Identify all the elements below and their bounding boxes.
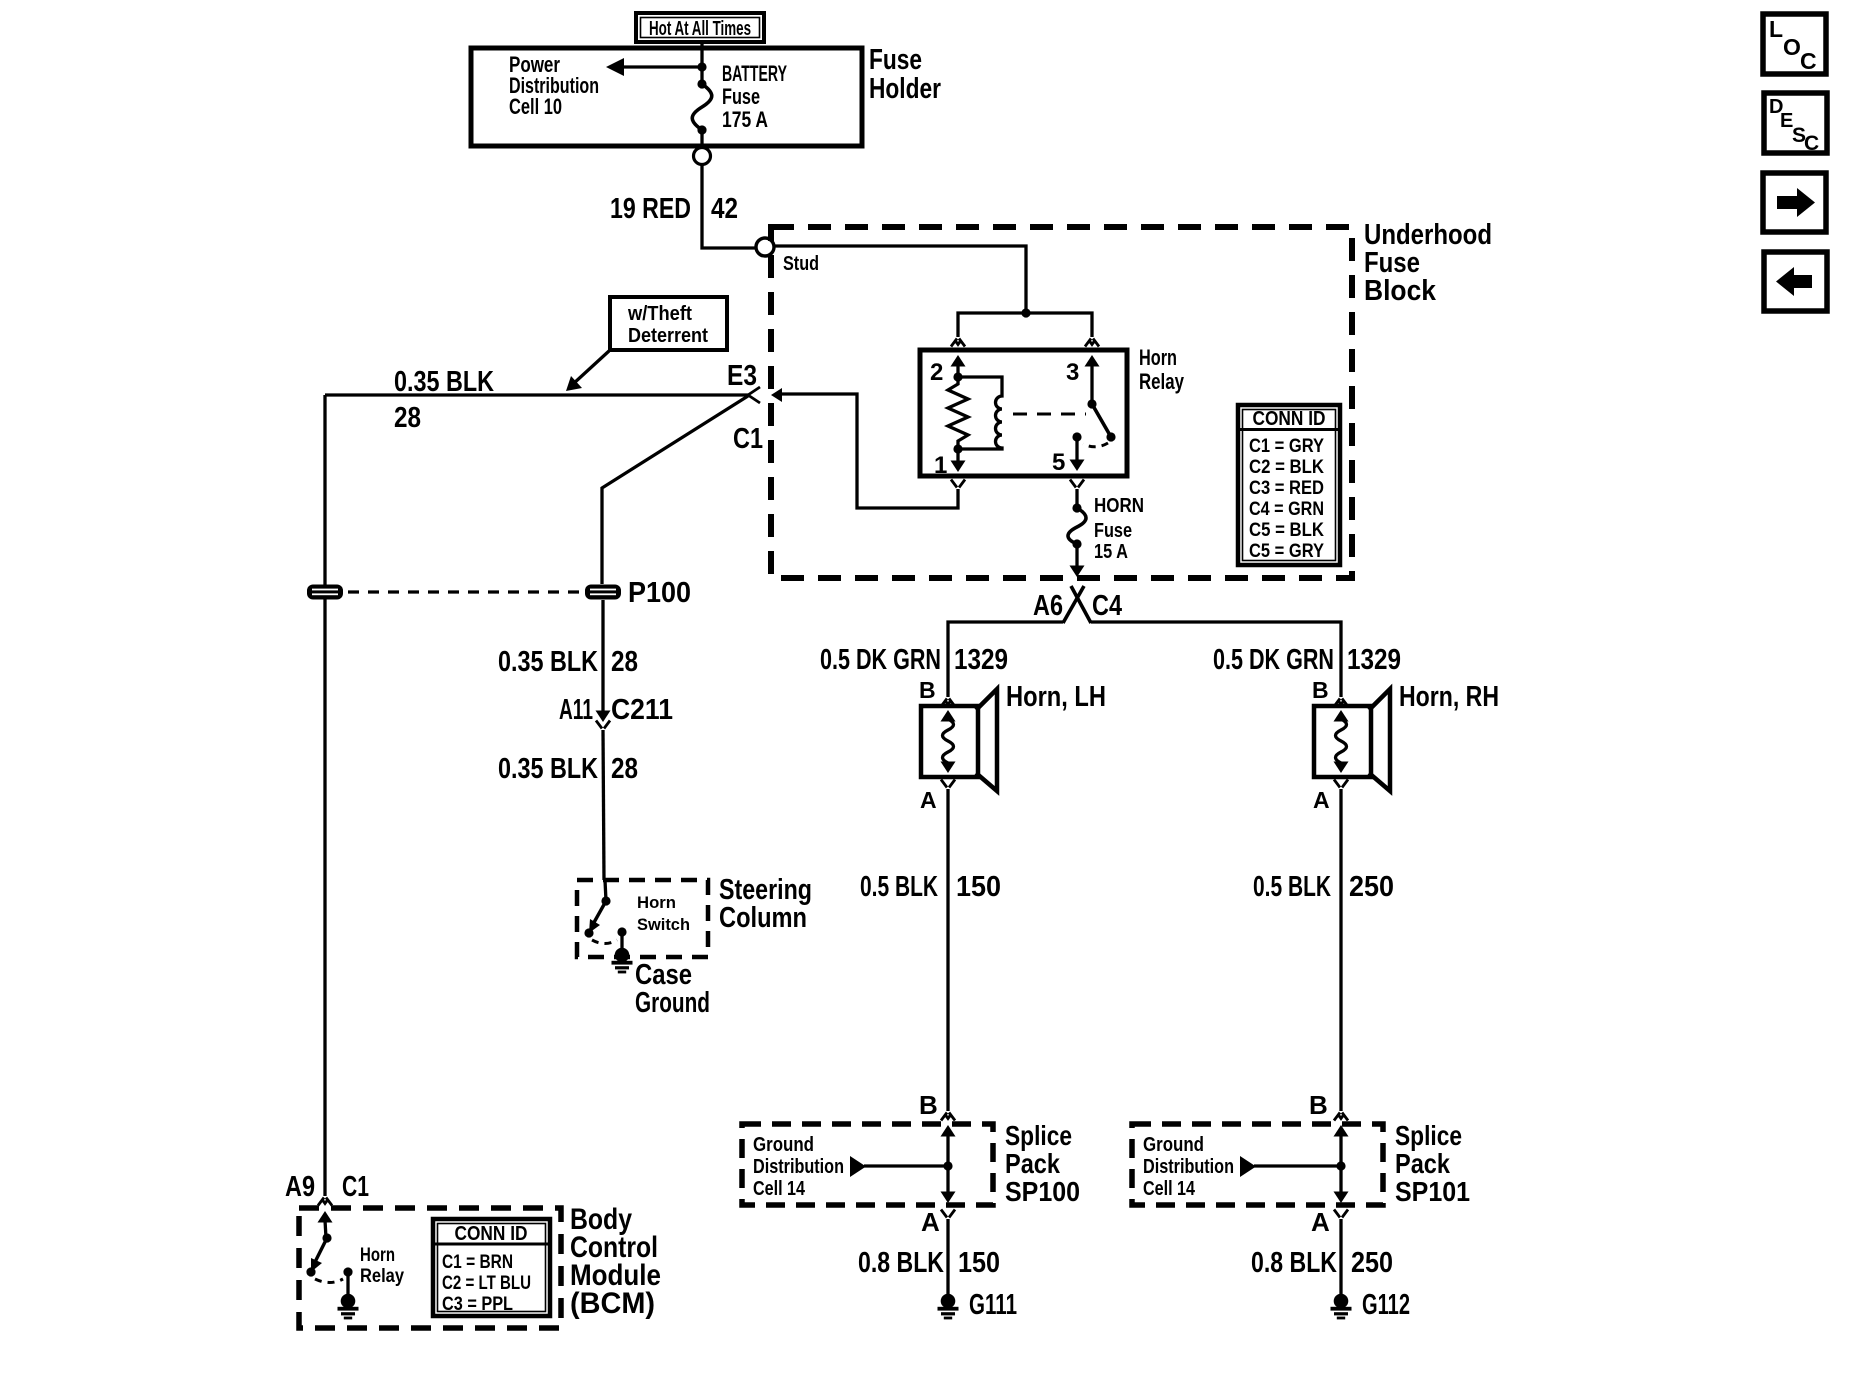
horn LH box [921,706,978,777]
svg-text:Relay: Relay [1139,369,1185,394]
relay coil [958,377,1002,449]
horn switch dashed arc [592,940,617,944]
label Steering Column [719,874,812,934]
svg-text:C3 = PPL: C3 = PPL [442,1294,513,1315]
connector A11 C211 [596,711,611,729]
horn switch contact dot [617,927,626,936]
wire horn fuse to block edge [1070,544,1085,577]
svg-text:2: 2 [930,359,943,386]
svg-text:w/Theft: w/Theft [627,303,692,325]
SP100 internal wire [941,1125,956,1203]
svg-text:Pack: Pack [1395,1148,1450,1179]
stud circle [756,238,774,256]
svg-text:O: O [1783,34,1801,60]
svg-text:C1: C1 [342,1171,369,1203]
battery fuse 175A symbol [692,79,712,134]
svg-text:28: 28 [394,402,421,434]
svg-text:Ground: Ground [635,987,710,1019]
ground G112 symbol [1331,1294,1352,1320]
label Horn Switch [637,893,690,934]
svg-text:150: 150 [956,871,1001,903]
relay pin 3 male arrow and stem [1085,355,1100,404]
case ground symbol [612,932,633,973]
relay coil-switch dashed link [1013,413,1086,416]
wire 0.35 BLK 28 horizontal [325,393,748,396]
svg-text:Cell 14: Cell 14 [753,1178,806,1200]
label Ground Distribution Cell 14 (SP100) [753,1134,844,1200]
svg-text:150: 150 [958,1247,1000,1279]
w/Theft arrow [566,351,609,391]
label Body Control Module (BCM) [570,1203,661,1320]
svg-text:Hot At All Times: Hot At All Times [649,18,751,40]
svg-text:Splice: Splice [1395,1120,1462,1151]
svg-text:B: B [1312,677,1329,703]
svg-text:0.5 BLK: 0.5 BLK [860,871,938,903]
svg-text:Ground: Ground [1143,1134,1204,1156]
label Hot At All Times [636,13,764,42]
svg-text:Deterrent: Deterrent [628,325,708,347]
svg-text:A: A [920,787,937,813]
svg-text:B: B [919,677,936,703]
female terminal below relay pin 1 [951,480,965,488]
svg-text:P100: P100 [628,577,691,609]
svg-text:1: 1 [934,452,947,479]
female terminal SP101 B [1334,1113,1348,1121]
female terminal horn LH A [941,780,955,788]
wire SP100 to ground [946,1219,949,1297]
horn LH speaker flare [976,689,997,791]
ground G111 symbol [938,1294,959,1320]
label Splice Pack SP101 [1395,1120,1470,1207]
BCM relay switch [306,1211,332,1277]
underhood fuse block dashed box [771,227,1352,578]
junction dot [697,62,706,71]
relay switch blade [1087,399,1115,441]
SP101 distribution arrow [1240,1156,1341,1177]
relay feed bus wire [958,313,1092,337]
svg-text:Block: Block [1364,275,1437,307]
svg-text:A6: A6 [1033,590,1063,622]
horn RH box [1314,706,1371,777]
splice pack SP101 dashed box [1132,1124,1383,1205]
svg-text:Column: Column [719,902,807,934]
label Ground Distribution Cell 14 (SP101) [1143,1134,1234,1200]
svg-text:C: C [1800,48,1817,74]
DESC button [1764,93,1827,155]
P100 grommet mid [585,585,621,600]
svg-text:A11: A11 [559,694,593,726]
wire pin1 to E3 connector [782,394,958,508]
steering column dashed box [577,880,708,957]
BCM switch dashed arc [315,1279,343,1283]
svg-text:C: C [1804,132,1819,155]
label Fuse Holder [869,44,941,105]
svg-text:B: B [919,1090,938,1120]
diagonal wire E3 to steering branch [602,396,748,584]
svg-text:CONN ID: CONN ID [1253,408,1326,430]
w/Theft Deterrent box [610,297,727,350]
label Underhood Fuse Block [1364,219,1492,307]
label Case Ground [635,959,710,1019]
wire stud to relay bus [774,246,1026,313]
female terminal SP100 B [941,1113,955,1121]
svg-text:C2 = LT BLU: C2 = LT BLU [442,1273,531,1294]
horn switch wire stub [605,880,606,901]
SP100 distribution arrow [850,1156,948,1177]
P100 dashed link [348,590,581,593]
svg-text:250: 250 [1351,1247,1393,1279]
svg-text:0.8 BLK: 0.8 BLK [858,1247,944,1279]
junction dot pin2 [953,372,962,381]
horn LH internal element [941,710,956,773]
wire hot feed [700,42,703,50]
svg-text:Horn: Horn [1139,345,1177,370]
svg-text:A: A [921,1207,940,1237]
female terminal BCM [318,1198,332,1206]
svg-text:Horn: Horn [360,1245,395,1266]
svg-text:C4: C4 [1092,590,1122,622]
wire pin5 to horn fuse [1075,489,1078,508]
horn RH speaker flare [1369,689,1390,791]
svg-text:CONN ID: CONN ID [455,1223,528,1245]
svg-text:0.8 BLK: 0.8 BLK [1251,1247,1337,1279]
svg-text:Distribution: Distribution [753,1156,844,1178]
label Horn Relay (BCM) [360,1245,404,1287]
power distribution arrow [606,58,702,76]
svg-text:0.5 DK GRN: 0.5 DK GRN [820,644,941,676]
female terminal below relay pin 5 [1070,480,1084,488]
E3 connector male arrow [771,388,782,402]
svg-text:0.5 BLK: 0.5 BLK [1253,871,1331,903]
svg-text:1329: 1329 [1347,644,1401,676]
svg-text:C1 = BRN: C1 = BRN [442,1252,513,1273]
wire horn RH to splice [1339,789,1342,1111]
label BATTERY Fuse 175 A [722,61,787,132]
mid vertical wire upper [601,600,604,716]
horn fuse 15A symbol [1068,503,1086,548]
female terminal horn RH B [1334,699,1348,707]
splice pack SP100 dashed box [742,1124,993,1205]
svg-text:Cell 10: Cell 10 [509,94,562,119]
wire battery feed [700,50,703,84]
svg-text:BATTERY: BATTERY [722,61,787,86]
wire 19 RED 42 [702,165,756,248]
relay pin 1 male arrow [951,449,966,472]
svg-text:Fuse: Fuse [1094,520,1132,542]
svg-text:15 A: 15 A [1094,541,1128,563]
svg-text:0.5 DK GRN: 0.5 DK GRN [1213,644,1334,676]
svg-text:250: 250 [1349,871,1394,903]
svg-text:A: A [1313,787,1330,813]
label Splice Pack SP100 [1005,1120,1080,1207]
fuse holder box [471,48,862,146]
junction dot bus [1021,308,1030,317]
svg-text:19 RED: 19 RED [610,193,691,225]
svg-text:(BCM): (BCM) [570,1287,655,1320]
svg-text:0.35 BLK: 0.35 BLK [498,753,598,785]
svg-text:Splice: Splice [1005,1120,1072,1151]
svg-text:0.35 BLK: 0.35 BLK [394,366,494,398]
horn RH internal element [1334,710,1349,773]
E3 connector female chevron [748,387,760,403]
wire SP101 to ground [1339,1219,1342,1297]
BCM dashed box [299,1208,561,1328]
svg-text:42: 42 [711,193,738,225]
svg-text:C211: C211 [611,694,673,726]
svg-text:A9: A9 [285,1171,315,1203]
svg-text:C1: C1 [733,423,763,455]
BCM switch contact and ground [338,1267,359,1319]
svg-text:B: B [1309,1090,1328,1120]
CONN ID table fuse block [1238,405,1340,565]
svg-text:Ground: Ground [753,1134,814,1156]
svg-text:C1 = GRY: C1 = GRY [1249,436,1324,457]
horn relay box [920,350,1127,476]
svg-text:SP100: SP100 [1005,1176,1080,1207]
svg-text:5: 5 [1052,449,1065,476]
wire horn LH to splice [946,789,949,1111]
label HORN Fuse 15 A [1094,495,1144,563]
svg-text:28: 28 [611,753,638,785]
wire fuse to terminal [700,130,703,147]
svg-text:175 A: 175 A [722,107,768,132]
svg-text:Horn, RH: Horn, RH [1399,681,1499,713]
svg-text:G112: G112 [1362,1289,1410,1321]
left vertical wire to BCM [323,395,326,1196]
female terminal SP100 A [941,1210,955,1218]
svg-text:A: A [1311,1207,1330,1237]
svg-text:3: 3 [1066,359,1079,386]
label Horn Relay [1139,345,1185,394]
svg-text:G111: G111 [969,1289,1017,1321]
relay resistor [948,377,968,449]
mid vertical wire lower [603,730,604,880]
P100 grommet left [307,585,343,600]
female terminal horn RH A [1334,780,1348,788]
svg-text:SP101: SP101 [1395,1176,1470,1207]
terminal circle [694,148,711,165]
svg-text:C4 = GRN: C4 = GRN [1249,499,1324,520]
svg-text:Fuse: Fuse [869,44,922,76]
svg-text:Fuse: Fuse [722,84,760,109]
junction dot pin1 [953,444,962,453]
relay pin 5 stem and male arrow [1070,432,1085,471]
svg-text:0.35 BLK: 0.35 BLK [498,646,598,678]
svg-text:C5 = GRY: C5 = GRY [1249,541,1324,562]
svg-text:Pack: Pack [1005,1148,1060,1179]
horn feed bus wire [948,622,1341,697]
svg-text:Cell 14: Cell 14 [1143,1178,1196,1200]
female terminal relay pin 2 [951,339,965,347]
svg-text:E3: E3 [727,360,757,392]
svg-text:Holder: Holder [869,73,941,105]
horn switch [584,896,610,937]
svg-text:C2 = BLK: C2 = BLK [1249,457,1324,478]
svg-text:28: 28 [611,646,638,678]
svg-text:1329: 1329 [954,644,1008,676]
svg-text:C5 = BLK: C5 = BLK [1249,520,1324,541]
svg-text:Horn: Horn [637,893,676,912]
svg-text:Switch: Switch [637,915,690,934]
relay pin 2 male arrow [951,355,966,377]
svg-text:Horn, LH: Horn, LH [1006,681,1106,713]
prev-page arrow button [1764,252,1827,311]
LOC button [1763,14,1826,74]
svg-text:Relay: Relay [360,1266,404,1287]
svg-text:HORN: HORN [1094,495,1144,517]
relay switch dashed arc [1083,443,1108,447]
svg-text:L: L [1769,16,1783,42]
female terminal SP101 A [1334,1210,1348,1218]
next-page arrow button [1763,173,1826,232]
svg-text:Stud: Stud [783,253,819,275]
connector A6 C4 X symbol [1063,586,1091,623]
svg-text:Distribution: Distribution [1143,1156,1234,1178]
CONN ID table BCM [433,1219,550,1316]
female terminal horn LH B [941,699,955,707]
svg-text:C3 = RED: C3 = RED [1249,478,1324,499]
label Power Distribution Cell 10 [509,52,599,119]
female terminal relay pin 3 [1085,339,1099,347]
SP101 internal wire [1334,1125,1349,1203]
